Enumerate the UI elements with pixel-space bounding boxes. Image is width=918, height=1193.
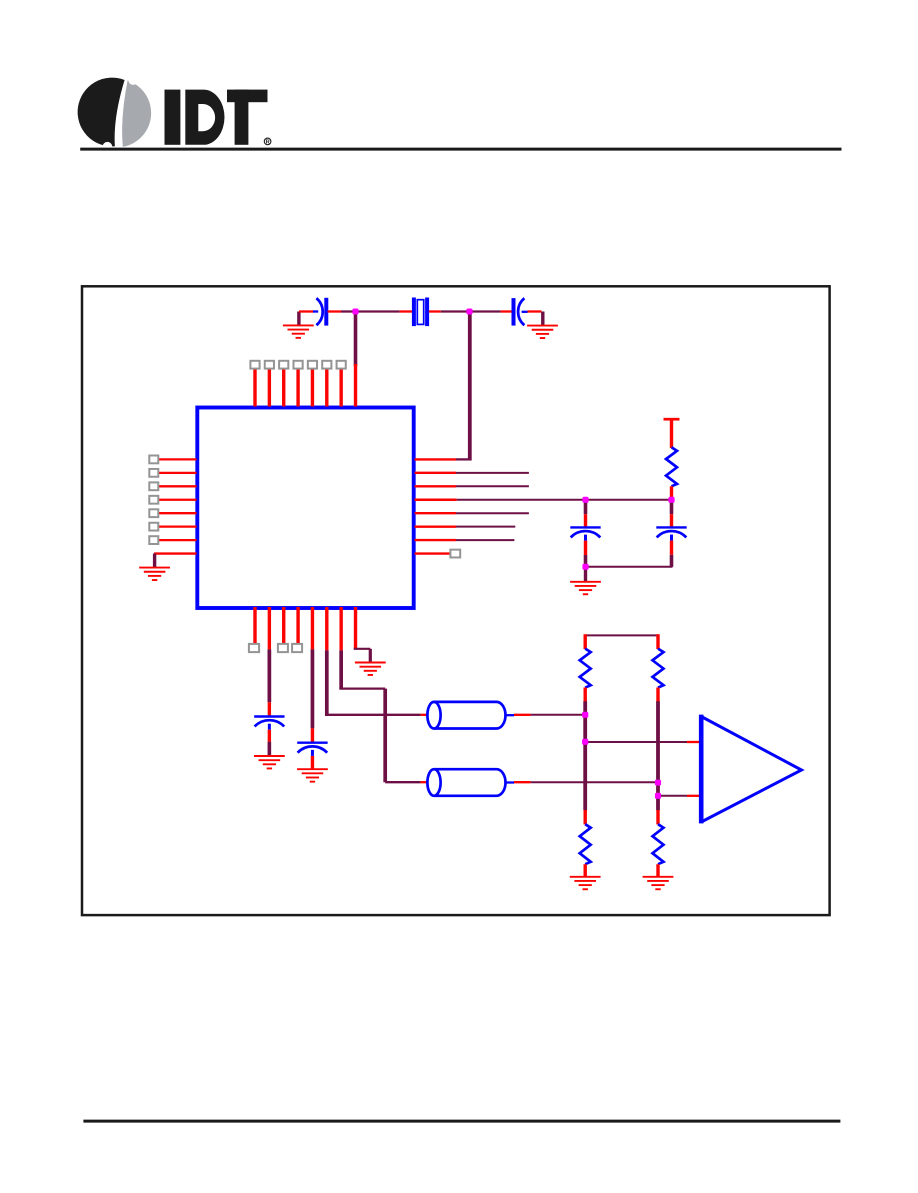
capacitor C1 bbox=[313, 298, 326, 326]
node D junction (op-amp in-) bbox=[655, 793, 661, 799]
U1 top pin 4 wire bbox=[296, 369, 299, 407]
U1 bottom pin 8 wire to ground GND7 bbox=[354, 607, 371, 662]
wire C4 to bottom rail bbox=[670, 541, 673, 567]
wire rail to R2 bbox=[584, 634, 587, 649]
wire C1 to node XIN bbox=[328, 310, 357, 312]
wire C1-left bbox=[299, 310, 313, 312]
U1 left pin 4 wire bbox=[158, 499, 196, 501]
U1 right pin 1 wire to XOUT bbox=[415, 458, 472, 460]
U1 right pin 4 wire (VDD net to decoupling) bbox=[415, 499, 587, 501]
wire R2 to node A bbox=[584, 688, 587, 811]
U1 right pin 2 wire bbox=[415, 472, 529, 474]
U1 bottom pin 7 wire to TL2 bbox=[339, 607, 430, 782]
U1 right pin 3 wire bbox=[415, 485, 529, 487]
U1 bottom pin 4 terminal bbox=[292, 644, 302, 652]
wire node VDDJ1 to VDDJ2 bbox=[586, 499, 672, 501]
U1 top pin 2 terminal bbox=[265, 361, 274, 369]
IDT logo emblem bbox=[78, 75, 152, 152]
resistor R1 bbox=[666, 447, 677, 486]
U1 left pin 6 wire bbox=[158, 526, 196, 528]
U1 left pin 5 terminal bbox=[149, 509, 158, 517]
U1 left pin 7 terminal bbox=[149, 536, 158, 544]
wire VDDJ2 down to C4 bbox=[670, 500, 674, 527]
U1 right pin 7 wire bbox=[415, 539, 515, 541]
capacitor C2 bbox=[514, 298, 528, 326]
ground node junction J5 bbox=[582, 564, 588, 570]
IDT logo text bbox=[165, 90, 271, 146]
U1 right pin 8 wire bbox=[415, 552, 451, 554]
U1 right pin 5 wire bbox=[415, 512, 529, 514]
wire VDDJ1 down to C3 bbox=[584, 500, 588, 527]
U1 top pin 1 terminal bbox=[250, 361, 259, 369]
U1 left pin 1 terminal bbox=[149, 456, 158, 464]
U1 top pin 6 wire bbox=[325, 369, 328, 407]
U1 left pin 6 terminal bbox=[149, 523, 158, 531]
ground GND3 stub (left pin 8) bbox=[153, 554, 156, 568]
wire crystal Y1 to node XOUT bbox=[429, 310, 470, 312]
op-amp U2 bbox=[701, 715, 801, 824]
ground GND4 bbox=[570, 582, 601, 594]
U1 top pin 8 wire (XIN) bbox=[354, 364, 357, 407]
node XOUT junction bbox=[466, 309, 472, 315]
U1 bottom pin 3 wire bbox=[282, 607, 285, 644]
header rule bbox=[80, 148, 841, 151]
coax TL1 bbox=[427, 702, 514, 729]
U1 bottom pin 3 terminal bbox=[278, 644, 288, 652]
resistor R2 bbox=[580, 649, 591, 688]
crystal Y1 bbox=[414, 298, 427, 327]
svg-text:R: R bbox=[266, 140, 270, 146]
U1 left pin 8 wire to ground bbox=[154, 552, 197, 554]
footer rule bbox=[83, 1120, 840, 1123]
node B junction (op-amp in+) bbox=[582, 739, 588, 745]
ground GND2 bbox=[527, 326, 558, 338]
U1 top pin 7 terminal bbox=[337, 361, 346, 369]
wire node D to op-amp U2 input 2 bbox=[658, 795, 700, 797]
U1 left pin 3 terminal bbox=[149, 482, 158, 490]
U1 right pin 6 wire bbox=[415, 525, 516, 527]
U1 bottom pin 1 terminal bbox=[249, 644, 259, 652]
ground GND3 bbox=[139, 568, 170, 580]
wire XOUT to C2 bbox=[470, 310, 513, 312]
ground GND7 bbox=[355, 663, 386, 675]
resistor R5 bbox=[653, 824, 664, 864]
U1 bottom pin 4 wire bbox=[296, 607, 299, 644]
wire C3 to ground node bbox=[584, 541, 587, 567]
ground GND1 stub (left of C1) bbox=[297, 312, 300, 326]
capacitor C4 bbox=[656, 527, 686, 540]
figure frame bbox=[82, 286, 830, 915]
wire XOUT down to U1 right pin 1 bbox=[468, 312, 472, 461]
U1 bottom pin 1 wire bbox=[253, 607, 256, 644]
U1 top pin 1 wire bbox=[253, 369, 256, 407]
wire R4 to ground bbox=[584, 810, 587, 824]
U1 top pin 5 wire bbox=[311, 369, 314, 407]
U1 left pin 2 terminal bbox=[149, 469, 158, 477]
ground GND6 bbox=[297, 769, 328, 781]
coax TL2 bbox=[427, 769, 514, 796]
U1 left pin 5 wire bbox=[158, 512, 196, 514]
U1 top pin 5 terminal bbox=[308, 361, 317, 369]
wire node B to op-amp U2 input 1 bbox=[585, 741, 700, 743]
wire C6 to ground GND6 bbox=[311, 756, 314, 769]
wire XIN to crystal Y1 bbox=[356, 310, 413, 312]
wire C2 to ground GND2 bbox=[528, 310, 542, 312]
capacitor C6 bbox=[297, 743, 327, 756]
wire R5 bottom stub bbox=[656, 864, 659, 876]
node VDDJ1 junction bbox=[582, 497, 588, 503]
U1 left pin 7 wire bbox=[158, 539, 196, 541]
wire C5 to ground GND5 bbox=[268, 730, 271, 756]
U1 bottom pin 6 wire to TL1 bbox=[325, 607, 430, 716]
ground GND9 bbox=[643, 877, 674, 889]
wire XIN down to U1 pin bbox=[354, 312, 358, 367]
ground GND1 bbox=[283, 325, 314, 337]
ground GND8 bbox=[570, 877, 601, 889]
ground GND4 stub bbox=[584, 567, 587, 582]
U1 right pin 8 terminal bbox=[450, 550, 460, 558]
U1 top pin 7 wire bbox=[339, 369, 342, 407]
wire R1 to node VDDJ2 bbox=[670, 486, 673, 500]
U1 left pin 2 wire bbox=[158, 472, 196, 474]
wire rail to R3 bbox=[656, 634, 659, 649]
U1 top pin 6 terminal bbox=[322, 361, 331, 369]
ground GND5 bbox=[254, 756, 285, 768]
capacitor C5 bbox=[254, 717, 284, 730]
wire R5 to ground bbox=[656, 810, 659, 824]
wire TL2 output to node C bbox=[514, 781, 659, 783]
resistor R4 bbox=[580, 824, 591, 864]
wire R4 bottom stub bbox=[584, 864, 587, 876]
node VDDJ2 junction bbox=[668, 497, 674, 503]
U1 top pin 3 terminal bbox=[279, 361, 288, 369]
power VDD symbol bbox=[664, 419, 680, 448]
U1 bottom pin 2 wire to C5 bbox=[268, 607, 271, 716]
IC U1 bbox=[197, 408, 413, 609]
U1 bottom pin 5 wire to C6 bbox=[311, 607, 314, 743]
node C junction (TL2 tap) bbox=[655, 780, 661, 786]
U1 top pin 2 wire bbox=[268, 369, 271, 407]
resistor R3 bbox=[653, 649, 664, 688]
node XIN junction bbox=[352, 309, 358, 315]
U1 top pin 4 terminal bbox=[293, 361, 302, 369]
wire R3 to node C bbox=[656, 688, 659, 811]
U1 left pin 3 wire bbox=[158, 485, 196, 487]
wire top rail R2-R3 bbox=[585, 634, 658, 636]
node A junction (TL1 tap) bbox=[582, 712, 588, 718]
U1 top pin 3 wire bbox=[282, 369, 285, 407]
capacitor C3 bbox=[570, 527, 600, 540]
U1 left pin 1 wire bbox=[158, 458, 196, 460]
wire TL1 output to node A bbox=[514, 714, 586, 716]
U1 left pin 4 terminal bbox=[149, 496, 158, 504]
wire bottom rail C3-C4 bbox=[586, 566, 673, 568]
ground GND2 stub bbox=[541, 312, 544, 326]
